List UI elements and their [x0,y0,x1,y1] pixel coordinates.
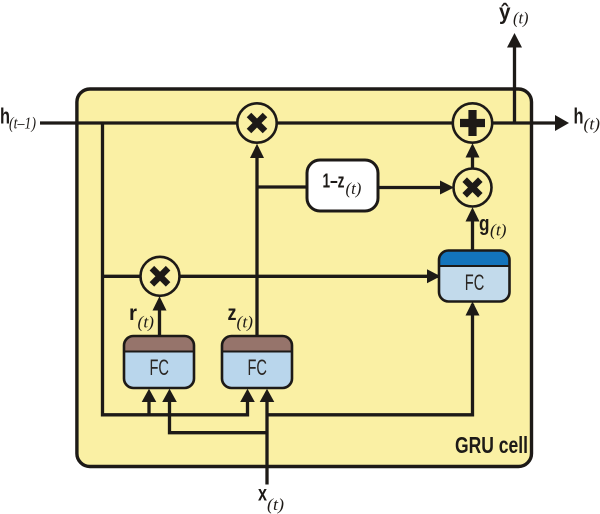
svg-text:GRU cell: GRU cell [455,432,528,458]
svg-text:(t): (t) [584,115,600,134]
svg-text:x: x [258,483,267,506]
svg-text:(t): (t) [490,221,507,240]
svg-text:1–z: 1–z [323,170,345,192]
svg-text:(t): (t) [346,179,362,198]
svg-text:(t): (t) [237,313,254,332]
svg-text:r: r [129,302,137,325]
svg-text:(t): (t) [138,313,155,332]
svg-text:z: z [228,302,237,325]
svg-text:g: g [479,213,490,236]
svg-text:ŷ: ŷ [499,0,511,25]
svg-text:(t): (t) [267,495,284,514]
svg-text:(t–1): (t–1) [9,114,36,133]
svg-text:h: h [574,104,584,129]
svg-text:FC: FC [248,355,268,380]
svg-text:(t): (t) [513,9,529,28]
svg-text:FC: FC [150,355,170,380]
svg-text:FC: FC [465,270,485,295]
